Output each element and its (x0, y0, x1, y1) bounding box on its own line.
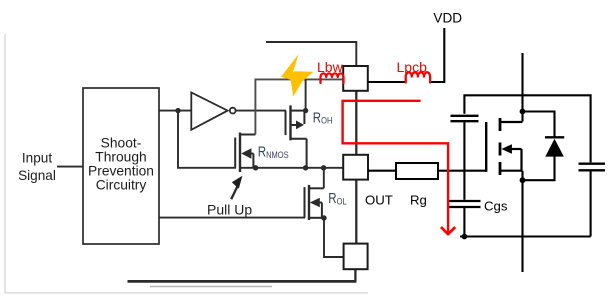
svg-text:RNMOS: RNMOS (258, 143, 289, 160)
wire Lpcb to VDD (430, 28, 445, 82)
top rail (266, 42, 356, 66)
capacitor Cds right (579, 164, 606, 171)
wire pad1 to Lpcb (368, 81, 405, 83)
wire ROL source to pad3 (324, 218, 344, 257)
pull-up arrow (231, 187, 237, 200)
svg-text:ROL: ROL (328, 190, 347, 207)
red arrowhead (441, 227, 455, 234)
wire ROL drain up to node (323, 168, 325, 189)
wire source terminal (521, 171, 523, 272)
node dot source (520, 177, 526, 183)
svg-text:Shoot-: Shoot- (101, 136, 142, 151)
top wire of FET network (464, 95, 590, 162)
wire drain terminal (521, 53, 523, 122)
node dot Cgs gnd (462, 234, 468, 240)
svg-text:Pull Up: Pull Up (207, 202, 252, 218)
svg-text:Circuitry: Circuitry (96, 178, 147, 193)
lightning bolt (281, 54, 313, 96)
svg-text:Signal: Signal (18, 168, 56, 183)
wire inverter output to ROH gate (236, 110, 286, 112)
pad P3 GND (344, 244, 368, 270)
pad P1 VDD (343, 66, 368, 91)
capacitor Cgd (451, 116, 479, 121)
node dot ROH source tap (303, 165, 308, 170)
inductor Lpcb (406, 72, 430, 82)
svg-text:Lpcb: Lpcb (397, 59, 428, 75)
svg-text:Input: Input (22, 151, 52, 166)
svg-text:VDD: VDD (433, 10, 462, 25)
wire node A down to RNMOS gate (178, 111, 236, 168)
transistor ROH (286, 105, 307, 167)
wire output node line (240, 167, 343, 169)
svg-text:ROH: ROH (313, 109, 333, 126)
node dot ROL drain tap (321, 165, 326, 170)
bottom gnd wire (128, 280, 357, 283)
inverter U1 (191, 92, 227, 129)
svg-text:Prevention: Prevention (88, 164, 154, 179)
wire input signal to box (57, 166, 83, 168)
wire box to inverter (159, 110, 191, 112)
gnd shadow gray line (150, 286, 272, 288)
wire OUT pad to Rg (368, 170, 396, 172)
red current path (343, 101, 449, 233)
svg-text:Through: Through (95, 150, 146, 165)
svg-text:Lbw: Lbw (317, 59, 344, 75)
page border left (5, 34, 368, 293)
bottom wire of FET network (460, 235, 591, 237)
wire pull-up from box to ROL gate (159, 217, 305, 219)
svg-text:OUT: OUT (365, 193, 393, 208)
node dot ROH drain (303, 108, 308, 113)
node A junction dot (175, 108, 180, 113)
node dot RNMOS source (253, 165, 258, 170)
svg-text:Rg: Rg (410, 193, 427, 208)
transistor ROL (305, 185, 325, 220)
resistor Rg (396, 163, 438, 179)
shoot-through box (83, 88, 159, 244)
bus between pads (355, 91, 357, 155)
svg-text:Cgs: Cgs (484, 199, 508, 214)
diode D1 body (523, 112, 555, 138)
node dot ROL source (321, 215, 326, 220)
pad P2 OUT (343, 155, 368, 180)
inductor Lbw (321, 73, 344, 83)
wire Rg to gate (438, 170, 486, 172)
transistor Q1 power FET (486, 118, 522, 175)
capacitor Cgs (463, 171, 465, 200)
node dot drain (520, 109, 526, 115)
wire Lbw rail y79 with drop to RNMOS drain (255, 79, 343, 134)
wire ROH drain to rail (305, 79, 307, 110)
transistor RNMOS (235, 133, 255, 173)
